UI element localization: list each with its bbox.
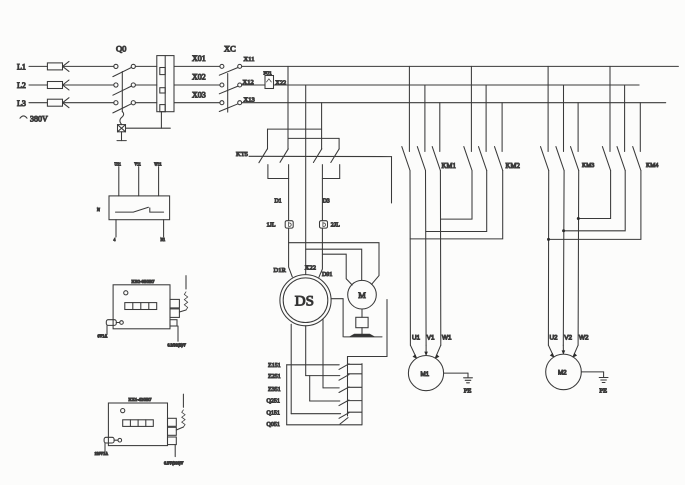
ground — [117, 132, 126, 141]
wire jog H2 — [288, 137, 339, 139]
wire to DS right — [319, 228, 323, 277]
wire pump hook B — [306, 249, 362, 280]
wire arrow into M1 left — [410, 345, 417, 359]
svg-text:KM4: KM4 — [646, 163, 658, 169]
fuse FU L3 — [47, 98, 69, 108]
wire arrow into M2 left — [548, 345, 554, 358]
motor M pump — [348, 280, 377, 309]
junction dot — [562, 229, 565, 232]
wire arrow into M2 right — [573, 345, 579, 358]
net ~ tilde — [20, 116, 27, 118]
svg-text:KM1: KM1 — [442, 163, 456, 170]
svg-text:2JL: 2JL — [331, 223, 340, 229]
wire phase1 drop — [287, 66, 289, 149]
svg-text:D3: D3 — [323, 199, 330, 205]
svg-text:Q0: Q0 — [116, 44, 126, 54]
wire to DS left — [289, 228, 293, 277]
svg-text:X22: X22 — [305, 265, 316, 272]
wire pump hook C — [322, 254, 352, 285]
wire KM1 out 2 — [425, 171, 428, 346]
svg-text:X11: X11 — [244, 56, 255, 63]
fuse FU1 — [264, 71, 274, 89]
svg-text:W11: W11 — [154, 162, 161, 166]
transformer box T1 — [98, 276, 188, 348]
svg-text:KT5: KT5 — [236, 151, 248, 158]
thermal element 1JL — [267, 221, 294, 229]
wire — [288, 179, 290, 221]
svg-text:KB2-05/3B7: KB2-05/3B7 — [132, 279, 156, 284]
svg-text:U1: U1 — [412, 335, 421, 342]
wire KM1 out 3 — [439, 171, 441, 346]
wire — [29, 84, 47, 86]
wire crossover U2 — [426, 171, 487, 232]
wire — [174, 102, 220, 104]
svg-text:W1: W1 — [442, 335, 452, 342]
svg-text:4: 4 — [114, 238, 116, 242]
wire crossover U3 — [410, 171, 503, 239]
wire DS bottom 1 — [290, 324, 292, 413]
svg-text:KZ1-42/3B7: KZ1-42/3B7 — [129, 397, 153, 402]
svg-text:N1: N1 — [161, 238, 166, 242]
contactor KM3 — [541, 66, 595, 170]
svg-text:V2: V2 — [564, 335, 572, 342]
wire crossover U1 — [441, 171, 472, 220]
svg-text:M1: M1 — [421, 371, 430, 378]
svg-text:1JL: 1JL — [267, 223, 276, 229]
svg-text:380V: 380V — [30, 115, 48, 124]
breaker Q0 — [113, 44, 135, 113]
contactor KM1 — [402, 66, 456, 170]
wire bus B left — [242, 84, 265, 86]
wire KM3 out 2 — [562, 171, 565, 346]
wire arrow into M2 mid — [562, 345, 566, 355]
svg-text:PE: PE — [464, 388, 472, 395]
svg-text:M2: M2 — [558, 370, 567, 377]
svg-text:FU1: FU1 — [264, 71, 273, 76]
wire — [174, 65, 220, 67]
svg-text:110V1A: 110V1A — [95, 451, 109, 456]
svg-text:6.3V(380)V: 6.3V(380)V — [164, 461, 184, 466]
svg-text:M: M — [358, 290, 366, 300]
wire wavy link — [120, 112, 124, 125]
thermal element 2JL — [320, 221, 341, 229]
wire — [63, 65, 114, 67]
wire KM3 out 1 — [547, 171, 549, 346]
wire — [321, 179, 323, 221]
junction dot — [577, 217, 580, 220]
wire KT5 right — [391, 157, 393, 203]
svg-text:Q151: Q151 — [267, 410, 280, 416]
wire phase3 drop — [321, 103, 323, 149]
wire brake to selector — [348, 300, 388, 365]
svg-text:D1R: D1R — [274, 267, 287, 274]
motor M1 — [408, 356, 443, 391]
svg-text:L3: L3 — [17, 99, 26, 108]
wire bus A — [242, 65, 679, 67]
svg-text:DS: DS — [295, 294, 314, 310]
wire — [29, 65, 47, 67]
svg-text:Z151: Z151 — [268, 363, 281, 369]
fuse FU L2 — [47, 80, 69, 90]
svg-text:D1: D1 — [275, 199, 282, 205]
motor M2 — [546, 354, 582, 390]
wire phase2 drop — [305, 85, 307, 275]
ground PE M2 — [581, 372, 608, 394]
wire — [135, 84, 156, 86]
svg-text:L1: L1 — [17, 63, 26, 72]
junction dot — [547, 238, 550, 241]
wire crossover U3b — [549, 171, 641, 240]
wire DS bottom 2 — [305, 326, 307, 376]
wire arrow into M1 right — [435, 345, 441, 359]
motor DS — [280, 275, 331, 326]
wire — [174, 84, 220, 86]
wire bus C — [242, 102, 666, 104]
svg-text:X03: X03 — [192, 90, 206, 99]
wire — [63, 84, 114, 86]
svg-text:X02: X02 — [192, 73, 206, 82]
wire — [63, 102, 114, 104]
brake YB — [344, 309, 382, 337]
contactor KM2 — [464, 66, 521, 170]
svg-text:KM3: KM3 — [582, 163, 594, 169]
svg-text:V1: V1 — [427, 335, 435, 342]
svg-text:6.3/36(B)V: 6.3/36(B)V — [168, 342, 186, 347]
wire bus B — [274, 84, 640, 86]
wire — [135, 102, 156, 104]
svg-text:D91: D91 — [322, 272, 332, 278]
transformer box T2 — [95, 394, 186, 465]
svg-text:XC: XC — [224, 44, 236, 54]
wire ground link — [126, 112, 171, 129]
svg-text:Z251: Z251 — [268, 374, 281, 380]
svg-text:Q251: Q251 — [267, 398, 280, 404]
svg-text:U11: U11 — [115, 162, 121, 166]
wire crossover U1b — [578, 171, 610, 219]
wire KM1 out 1 — [409, 171, 411, 346]
terminal block — [157, 56, 174, 112]
contactor KM4 — [602, 66, 658, 170]
svg-text:U2: U2 — [550, 335, 559, 342]
relay box KA — [97, 162, 170, 242]
wire jog H1 — [268, 128, 322, 130]
relay KT5 — [236, 129, 392, 178]
wire arrow into M1 mid — [424, 345, 428, 356]
svg-text:Q051: Q051 — [267, 422, 280, 428]
wire crossover U2b — [564, 171, 626, 231]
svg-text:PE: PE — [599, 387, 607, 394]
wire DS bottom 3 — [322, 319, 324, 388]
svg-text:V11: V11 — [134, 162, 140, 166]
fuse FU L1 — [47, 61, 69, 71]
connector XC — [219, 44, 241, 113]
ground PE M1 — [444, 373, 473, 395]
wire DS to brake base — [331, 299, 343, 337]
wire — [29, 102, 47, 104]
svg-text:KM2: KM2 — [506, 163, 521, 170]
trip box with X — [118, 125, 126, 132]
speed selector switch — [287, 357, 362, 425]
wire — [135, 65, 156, 67]
svg-text:X01: X01 — [192, 54, 206, 63]
svg-text:Z351: Z351 — [268, 387, 281, 393]
svg-text:6V1A: 6V1A — [98, 334, 108, 339]
svg-text:N: N — [97, 207, 100, 212]
svg-text:L2: L2 — [17, 81, 26, 90]
wire KM3 out 3 — [577, 171, 580, 346]
svg-text:W2: W2 — [579, 335, 589, 342]
wire pump hook A — [289, 243, 379, 285]
